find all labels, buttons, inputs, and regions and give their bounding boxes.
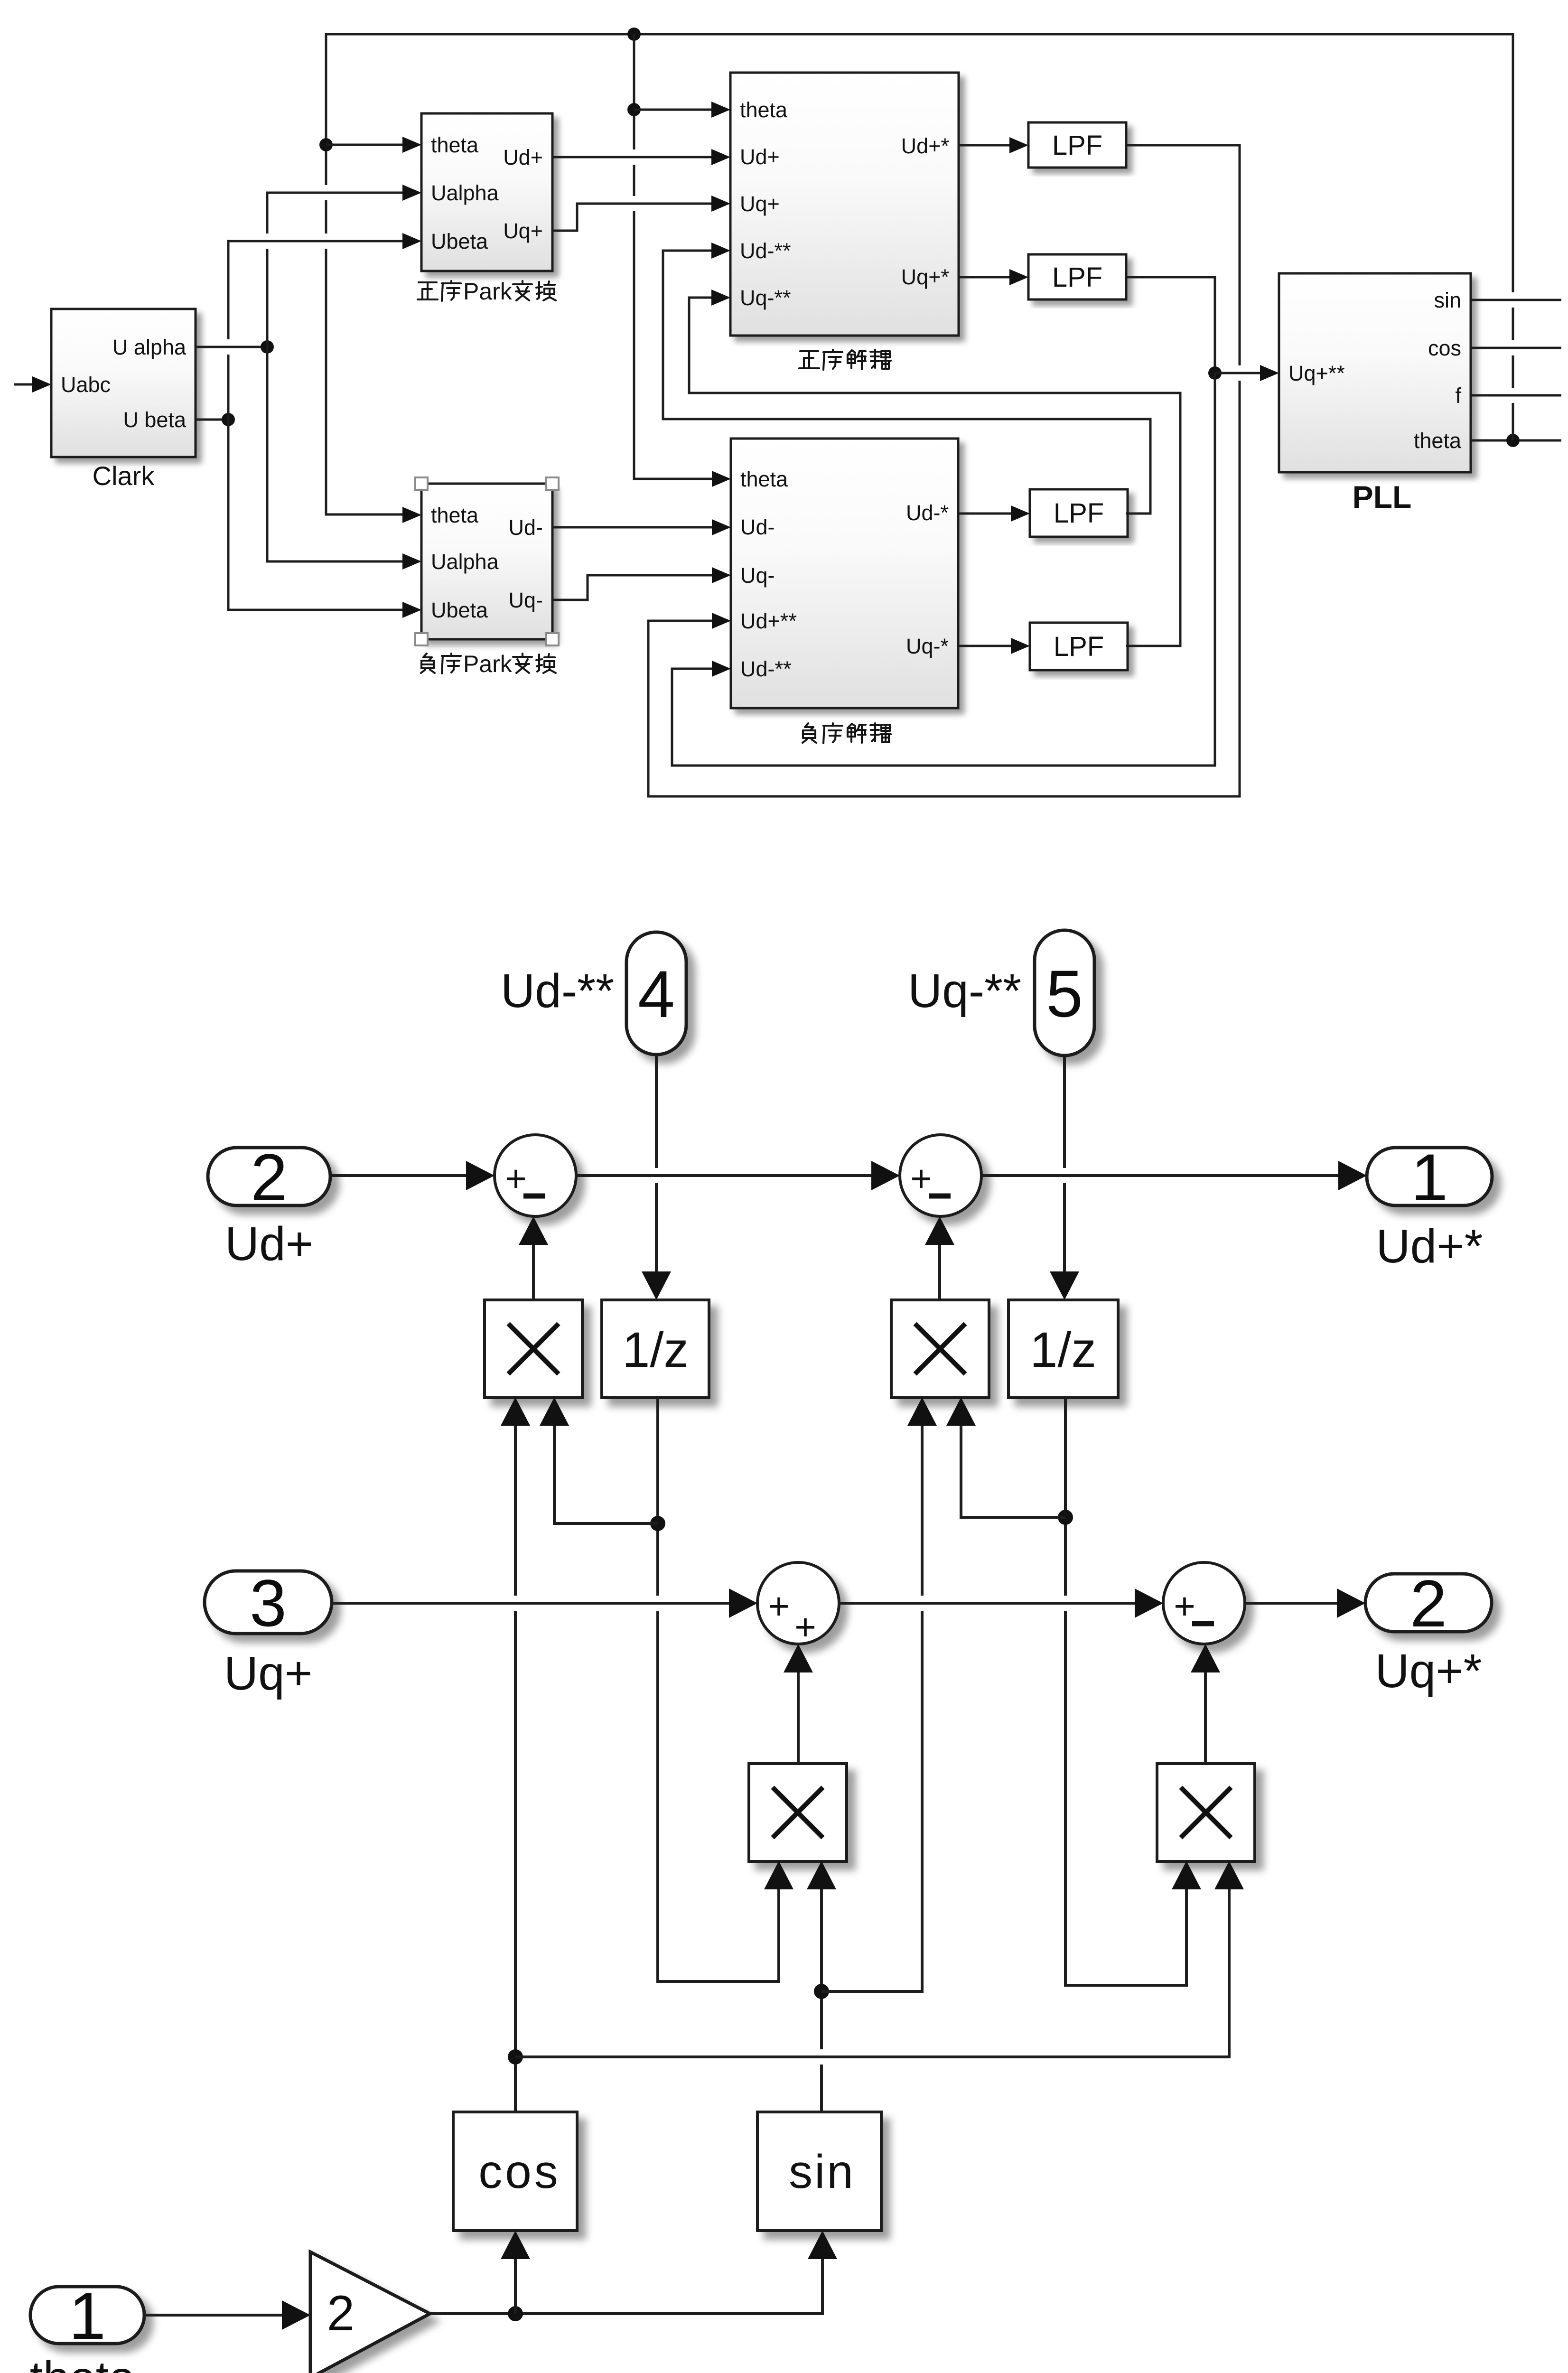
svg-text:theta: theta xyxy=(431,503,479,527)
product block product4 (cos x delayed Uq-**) xyxy=(1157,1764,1255,1861)
wire gain output to sin xyxy=(430,2259,822,2314)
junction 1/z1 tap xyxy=(650,1516,665,1531)
svg-text:Clark: Clark xyxy=(93,461,155,491)
svg-text:theta: theta xyxy=(740,467,788,491)
wire crossing overpaint sin out over feedback xyxy=(1484,292,1559,308)
arrowhead into decouple+ Uq-** xyxy=(711,290,730,306)
junction theta branch to Park+ xyxy=(319,138,333,151)
arrowhead into Park+ Ualpha xyxy=(402,185,421,201)
wire product2 up to sum2 xyxy=(938,1245,941,1300)
svg-text:sin: sin xyxy=(789,2145,855,2198)
wire sin output up xyxy=(820,1889,823,2112)
wire tap to PLL input xyxy=(1215,372,1260,374)
sum block sum1 (Ud+ minus product1) xyxy=(495,1135,576,1216)
block filter block LPF4 xyxy=(1030,623,1128,670)
block cos block xyxy=(453,2112,577,2231)
wire port5 down to 1/z #2 xyxy=(1063,1056,1066,1271)
svg-text:Uq-**: Uq-** xyxy=(740,286,791,310)
svg-text:2: 2 xyxy=(251,1140,288,1215)
junction cos tap xyxy=(508,2049,523,2065)
wire LPF1 feedback to decouple- Ud+** xyxy=(648,145,1240,796)
arrowhead into PLL Uq+** xyxy=(1260,365,1279,381)
svg-text:Uq+: Uq+ xyxy=(224,1647,312,1700)
svg-text:Uq+*: Uq+* xyxy=(901,265,949,289)
svg-text:+: + xyxy=(505,1158,527,1199)
sum block sum2 (minus product2) xyxy=(900,1135,981,1216)
wire PLL theta output xyxy=(1471,439,1561,442)
arrowhead into decouple+ theta xyxy=(711,102,730,118)
arrowhead into decouple- Uq- xyxy=(712,567,731,583)
arrowhead into LPF1 xyxy=(1009,137,1028,153)
arrowhead into decouple- theta xyxy=(712,471,731,487)
arrowhead into 1/z #2 xyxy=(1050,1271,1079,1300)
port outport 2 (Uq+*) xyxy=(1365,1566,1492,1641)
wire decouple+ Ud+* to LPF1 xyxy=(959,144,1009,147)
arrowhead into LPF4 xyxy=(1011,638,1030,654)
svg-text:theta: theta xyxy=(431,133,479,157)
svg-text:Ud-: Ud- xyxy=(740,515,775,539)
wire input stub into Clark Uabc xyxy=(14,383,32,386)
svg-text:1/z: 1/z xyxy=(622,1322,689,1378)
svg-text:+: + xyxy=(1174,1585,1195,1627)
arrowhead into sum3 lower xyxy=(784,1644,813,1672)
svg-text:Ud+: Ud+ xyxy=(503,145,543,169)
svg-text:4: 4 xyxy=(638,957,675,1031)
arrowhead into sum1 lower xyxy=(519,1216,548,1245)
svg-text:Ud+**: Ud+** xyxy=(740,609,797,633)
junction gain output tap to cos xyxy=(508,2306,523,2321)
wire tap to product1 right xyxy=(554,1426,658,1523)
wire crossing overpaint Ud+ over theta vertical xyxy=(569,149,708,165)
wire product4 up to sum4 xyxy=(1204,1672,1207,1764)
arrowhead into Park+ theta xyxy=(402,137,421,153)
wire crossing overpaint Ualpha over x687 xyxy=(275,185,398,200)
svg-text:theta: theta xyxy=(1414,429,1462,453)
arrowhead into Park+ Ubeta xyxy=(402,233,421,249)
wire theta to decouple+ theta xyxy=(634,109,711,111)
block subsystem decouple- (negative-sequence decoupling) xyxy=(731,439,958,708)
svg-text:Ud-*: Ud-* xyxy=(906,501,949,525)
svg-text:sin: sin xyxy=(1434,288,1461,312)
arrowhead into Clark Uabc xyxy=(32,376,51,392)
svg-text:LPF: LPF xyxy=(1054,631,1104,662)
svg-text:+: + xyxy=(768,1585,790,1627)
arrowhead into product3 left xyxy=(764,1861,793,1889)
wire Clark U beta to junction xyxy=(196,419,228,421)
junction theta feedback tap xyxy=(1506,434,1520,447)
wire tap to product2 right xyxy=(961,1426,1065,1517)
unit delay block unit delay 1/z #2 xyxy=(1008,1300,1118,1398)
arrowhead into LPF3 xyxy=(1011,505,1030,522)
svg-text:Uq+: Uq+ xyxy=(740,192,780,216)
wire Park+ Ud+ to decouple+ Ud+ xyxy=(552,156,711,159)
arrowhead into sum4 xyxy=(1135,1588,1163,1618)
wire Park- Ud- to decouple- Ud- xyxy=(552,526,712,529)
arrowhead into decouple- Ud- xyxy=(712,519,731,535)
arrowhead into product1 left xyxy=(501,1397,530,1426)
wire Park- Uq- to decouple- Uq- xyxy=(552,575,712,600)
wire sin to product2 left xyxy=(821,1426,922,1991)
wire crossing overpaint PLL input over x2612 xyxy=(1224,365,1257,381)
svg-text:2: 2 xyxy=(327,2286,355,2341)
arrowhead into product3 right xyxy=(807,1861,836,1889)
wire crossing overpaint row1 sum2-out over port5 col xyxy=(1007,1168,1335,1183)
sum block sum4 (minus product4) xyxy=(1163,1562,1245,1644)
label 正序解耦 xyxy=(799,350,891,370)
block filter block LPF3 xyxy=(1030,489,1128,537)
wire decouple- Ud-* to LPF3 xyxy=(958,513,1011,515)
wire U alpha down to Park- Ualpha xyxy=(267,347,402,561)
wire crossing overpaint cos out over feedback xyxy=(1484,340,1559,355)
junction theta branch to decouple+ xyxy=(627,103,641,116)
svg-text:LPF: LPF xyxy=(1052,130,1102,161)
block filter block LPF2 xyxy=(1028,254,1126,299)
selection handles of Park- block xyxy=(415,477,428,490)
arrowhead into product4 right xyxy=(1214,1861,1244,1889)
arrowhead into sum2 lower xyxy=(925,1216,954,1245)
block subsystem decouple+ (positive-sequence decoupling) xyxy=(730,73,959,336)
product block product3 (sin x delayed Ud-**) xyxy=(749,1764,847,1861)
arrowhead into outport Ud+* xyxy=(1338,1161,1367,1190)
svg-text:1: 1 xyxy=(69,2279,106,2353)
wire cos output up xyxy=(514,1426,517,2112)
wire 1/z2 output down xyxy=(1065,1397,1186,1985)
svg-text:PLL: PLL xyxy=(1353,479,1412,514)
wire Ud+ to sum1 xyxy=(330,1174,466,1177)
arrowhead into sin bottom xyxy=(808,2231,837,2259)
arrowhead into decouple- Ud-** xyxy=(712,661,731,677)
label 负序Park变换 xyxy=(421,651,556,677)
arrowhead into decouple- Ud+** xyxy=(712,613,731,629)
wire theta feedback up and across top xyxy=(326,34,1513,514)
wire PLL f output xyxy=(1471,394,1561,397)
wire theta to Park+ theta xyxy=(326,144,402,146)
wire crossing overpaint Clark Ualpha over x481 xyxy=(210,339,259,355)
wire theta down to decouple- theta xyxy=(634,34,712,479)
wire decouple+ Uq+* to LPF2 xyxy=(959,276,1009,279)
svg-text:Ud+*: Ud+* xyxy=(901,134,949,158)
svg-text:1/z: 1/z xyxy=(1030,1322,1096,1378)
svg-text:cos: cos xyxy=(1428,336,1461,360)
label 正序Park变换 xyxy=(418,278,556,305)
label 负序解耦 xyxy=(803,723,891,743)
wire decouple- Uq-* to LPF4 xyxy=(958,645,1011,647)
product block product1 (cos x delayed Ud-**) xyxy=(485,1300,582,1398)
svg-text:Ud-**: Ud-** xyxy=(501,964,614,1018)
svg-text:Ud-: Ud- xyxy=(508,515,543,540)
svg-text:3: 3 xyxy=(250,1566,287,1640)
junction 1/z2 tap xyxy=(1058,1510,1073,1525)
wire sum1 to sum2 xyxy=(576,1174,871,1177)
arrowhead into sum3 xyxy=(729,1588,757,1618)
wire LPF2 feedback to decouple- Ud-** xyxy=(672,373,1215,766)
svg-text:Uq-**: Uq-** xyxy=(908,964,1021,1018)
port inport 3 (Uq+) xyxy=(205,1566,332,1640)
svg-text:Uq-: Uq- xyxy=(508,588,543,612)
svg-text:Uabc: Uabc xyxy=(61,373,111,397)
wire crossing overpaint Ubeta over x563,x687 xyxy=(237,234,398,249)
arrowhead into gain xyxy=(282,2300,310,2330)
svg-text:5: 5 xyxy=(1046,956,1083,1031)
wire Clark U alpha to junction xyxy=(196,346,267,348)
arrowhead into decouple+ Uq+ xyxy=(711,196,730,212)
wire tap up to cos xyxy=(514,2259,517,2314)
svg-text:Ud+*: Ud+* xyxy=(1376,1220,1483,1273)
arrowhead into Park- Ualpha xyxy=(402,553,421,570)
wire sum2 to outport Ud+* xyxy=(981,1174,1338,1177)
wire theta to gain xyxy=(144,2314,282,2317)
svg-text:Ud+: Ud+ xyxy=(740,145,780,169)
block Clark subsystem xyxy=(51,309,196,457)
svg-text:Uq+*: Uq+* xyxy=(1375,1644,1482,1698)
wire LPF3 feedback to decouple+ Ud-** xyxy=(663,251,1150,514)
svg-text:+: + xyxy=(794,1606,816,1648)
wire sum4 to outport Uq+* xyxy=(1245,1602,1337,1605)
wire LPF2 output to PLL tap xyxy=(1126,277,1215,373)
arrowhead into product4 left xyxy=(1172,1861,1201,1889)
svg-text:Ubeta: Ubeta xyxy=(431,598,488,622)
svg-text:1: 1 xyxy=(1411,1140,1448,1215)
wire product3 up to sum3 xyxy=(797,1672,800,1764)
wire product1 up to sum1 xyxy=(532,1245,535,1300)
arrowhead into Park- Ubeta xyxy=(402,602,421,618)
svg-text:Uq-: Uq- xyxy=(740,563,775,588)
junction Uq+** junction xyxy=(1208,366,1222,380)
arrowhead into LPF2 xyxy=(1009,269,1028,285)
svg-text:f: f xyxy=(1455,383,1461,408)
port outport 1 (Ud+*) xyxy=(1367,1140,1492,1215)
block subsystem Park+ (positive-sequence Park transform) xyxy=(421,113,552,271)
product block product2 (sin x delayed Uq-**) xyxy=(891,1300,989,1398)
junction U alpha branch xyxy=(261,340,274,354)
block subsystem PLL xyxy=(1279,273,1471,472)
arrowhead into Park- theta xyxy=(402,507,421,523)
arrowhead into product2 right xyxy=(946,1397,976,1426)
wire crossing overpaint row2 sum3-sum4 over sin and 1/z2 cols xyxy=(865,1596,1132,1611)
wire PLL cos output xyxy=(1471,347,1561,349)
junction theta branch on top line xyxy=(627,28,641,41)
arrowhead into sum2 xyxy=(871,1161,900,1190)
wire crossing overpaint f out over feedback xyxy=(1484,388,1559,403)
wire crossing overpaint cos branch over sin col xyxy=(528,2049,1216,2065)
block sin block xyxy=(757,2112,881,2231)
wire crossing overpaint row1 sum1-sum2 over port4 col xyxy=(602,1168,868,1183)
svg-text:Ualpha: Ualpha xyxy=(431,550,499,574)
junction sin tap xyxy=(814,1984,829,1999)
svg-text:+: + xyxy=(910,1158,932,1199)
port inport 1 (theta) xyxy=(30,2279,144,2353)
svg-text:Park: Park xyxy=(463,651,513,677)
arrowhead into decouple+ Ud-** xyxy=(711,243,730,259)
port inport 2 (Ud+) xyxy=(208,1140,330,1215)
arrowhead into outport Uq+* xyxy=(1337,1588,1365,1618)
port inport 4 (Ud-**) xyxy=(626,932,686,1055)
wire crossing overpaint row2 in-sum3 over cos and 1/z1 cols xyxy=(354,1596,726,1611)
junction U beta branch xyxy=(222,413,235,426)
svg-text:Ud+: Ud+ xyxy=(225,1217,313,1271)
svg-text:theta: theta xyxy=(30,2352,136,2373)
svg-text:Ud-**: Ud-** xyxy=(740,657,792,681)
wire 1/z1 output down xyxy=(658,1397,779,1981)
wire Park+ Uq+ to decouple+ Uq+ xyxy=(552,204,711,231)
sum block sum3 (Uq+ plus product3) xyxy=(757,1562,839,1648)
svg-text:LPF: LPF xyxy=(1054,498,1104,529)
wire Uq+ to sum3 xyxy=(332,1602,729,1605)
arrowhead into product2 left xyxy=(907,1397,937,1426)
svg-text:2: 2 xyxy=(1410,1566,1447,1641)
svg-text:Ud-**: Ud-** xyxy=(740,239,791,263)
svg-text:Uq+: Uq+ xyxy=(503,219,543,243)
wire PLL sin output xyxy=(1471,299,1561,301)
wire U beta down to Park- Ubeta xyxy=(228,420,402,610)
svg-text:LPF: LPF xyxy=(1052,262,1102,293)
svg-text:Uq+**: Uq+** xyxy=(1288,361,1345,385)
svg-text:U beta: U beta xyxy=(123,408,187,432)
wire crossing overpaint Uq+ over theta vertical xyxy=(586,196,708,211)
svg-text:cos: cos xyxy=(478,2145,561,2198)
unit delay block unit delay 1/z #1 xyxy=(602,1300,709,1398)
svg-text:Ualpha: Ualpha xyxy=(431,181,499,205)
arrowhead into decouple+ Ud+ xyxy=(711,149,730,165)
arrowhead into 1/z #1 xyxy=(642,1271,671,1300)
block subsystem Park- (negative-sequence Park transform, selected) xyxy=(421,484,552,639)
wire U alpha up to Park+ Ualpha xyxy=(267,193,402,347)
svg-text:theta: theta xyxy=(740,98,788,122)
arrowhead into sum4 lower xyxy=(1191,1644,1220,1672)
wire port4 down to 1/z #1 xyxy=(655,1055,658,1271)
arrowhead into cos bottom xyxy=(501,2231,530,2259)
wire sum3 to sum4 xyxy=(839,1602,1135,1605)
port inport 5 (Uq-**) xyxy=(1035,930,1094,1056)
svg-text:Uq-*: Uq-* xyxy=(906,634,949,658)
wire LPF4 feedback to decouple+ Uq-** xyxy=(689,298,1180,646)
svg-text:Park: Park xyxy=(463,278,513,305)
wire cos to product4 right xyxy=(515,1889,1229,2057)
arrowhead into sum1 xyxy=(466,1161,495,1190)
block filter block LPF1 xyxy=(1028,122,1126,168)
arrowhead into product1 right xyxy=(540,1397,569,1426)
svg-text:U alpha: U alpha xyxy=(112,335,187,359)
svg-text:Ubeta: Ubeta xyxy=(431,229,488,253)
wire U beta up to Park+ Ubeta xyxy=(228,241,402,420)
gain block (x2) xyxy=(310,2252,430,2373)
